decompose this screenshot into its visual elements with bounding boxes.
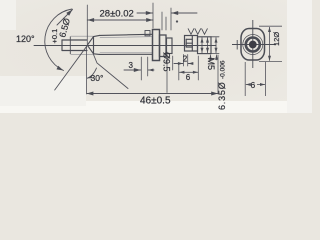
6 dim ext left (244, 62, 246, 96)
28 dim line (87, 19, 153, 21)
ring (246, 38, 260, 52)
end view h centerline (232, 44, 276, 46)
6 dim ext right (265, 62, 267, 96)
dia12 dim line (269, 27, 271, 61)
46 dim ext left (86, 47, 88, 94)
background shades (0, 0, 312, 113)
svg-text:12Ø: 12Ø (272, 32, 281, 46)
shaft bottom inner faint (100, 51, 153, 53)
svg-text:2: 2 (183, 55, 188, 64)
ext line 28dim right (152, 3, 154, 28)
dia9.5 dim line (166, 52, 168, 93)
centerline cross tick (236, 40, 238, 50)
ext at x172.7 (172, 56, 174, 70)
svg-text:30°: 30° (91, 73, 104, 83)
socket inner vertical left (185, 39, 187, 47)
svg-text:120°: 120° (16, 34, 35, 44)
upper angle leg (57, 10, 73, 26)
ext line shaft bottom extended left (71, 53, 93, 55)
46 dim line (87, 93, 218, 95)
svg-text:6: 6 (251, 80, 256, 90)
socket piece outline (185, 36, 198, 52)
3 dim tail (124, 69, 141, 71)
end view v centerline (252, 20, 254, 68)
tip cylinder bottom (62, 50, 87, 52)
outside up arrows (210, 55, 212, 60)
cone upper edge (87, 37, 93, 46)
collar2 (160, 35, 167, 57)
tip cylinder top (62, 39, 87, 41)
shaft bottom (100, 53, 153, 55)
socket inner bottom line (186, 46, 192, 48)
centerline main view (34, 45, 216, 47)
dia 6.35 dim line (215, 38, 217, 53)
socket inner top line (186, 38, 192, 40)
tip cylinder left edge (61, 40, 63, 51)
socket inner mid line (186, 42, 192, 44)
svg-text:6: 6 (186, 73, 191, 82)
end rect (threaded M5 end) (198, 37, 212, 54)
2 dim (183, 55, 185, 67)
6 dim line left seg (246, 84, 250, 86)
block3 (167, 38, 173, 54)
END VIEW (232, 20, 276, 68)
tip inner edge (69, 37, 71, 54)
svg-text:46±0.5: 46±0.5 (140, 96, 171, 107)
socket inner vertical right (191, 36, 193, 51)
top small dim tails (137, 12, 153, 14)
angle leg down-left (55, 45, 88, 90)
6 dim (197, 56, 199, 80)
46 dim ext right (217, 55, 219, 94)
shaft top (100, 34, 153, 35)
outer body (241, 29, 265, 61)
svg-text:28±0.02: 28±0.02 (100, 9, 134, 20)
dia12 ext top (259, 25, 282, 27)
svg-text:M5: M5 (206, 58, 216, 71)
nose taper top (94, 35, 100, 36)
dia12 ext bottom (259, 61, 282, 63)
svg-text:-0.006: -0.006 (220, 60, 227, 79)
second dim arrow (207, 38, 209, 53)
M5 dim arrow (201, 38, 203, 53)
mid circle (243, 35, 263, 55)
ext line 28dim left (86, 5, 88, 44)
flange (153, 30, 160, 61)
svg-text:6.35Ø: 6.35Ø (217, 81, 227, 110)
30 deg small arc (87, 68, 97, 78)
ext line shaft top extended left (71, 35, 93, 37)
ext lines above part (161, 12, 163, 30)
small dot top (176, 21, 178, 23)
shaft top inner faint (100, 37, 153, 38)
dark center (249, 41, 257, 49)
120 deg arc (45, 9, 72, 71)
ext line right end bottom (211, 53, 219, 55)
cone base (93, 37, 95, 54)
nose taper bottom (94, 53, 100, 56)
svg-text:Ø9.5: Ø9.5 (162, 52, 172, 72)
cone lower edge (87, 45, 93, 54)
angle leg down-right 30deg (94, 55, 129, 89)
6 dim line right seg (257, 84, 265, 86)
svg-text:3: 3 (129, 61, 134, 70)
ext line right end top (211, 36, 219, 38)
small square on shaft (145, 31, 150, 36)
surface finish triangles (188, 28, 208, 34)
